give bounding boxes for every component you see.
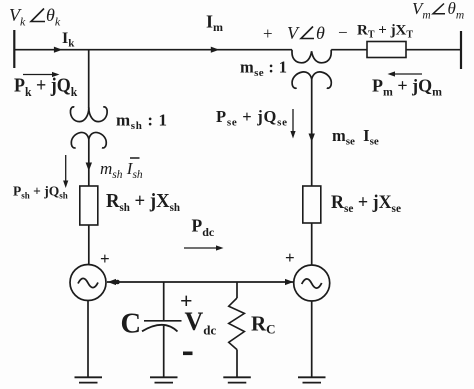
wire Rse to source E2 xyxy=(311,223,313,265)
arrow Pm (thin, left) xyxy=(391,73,422,75)
arrowhead Im xyxy=(211,47,220,53)
resistor RT box xyxy=(367,42,406,58)
svg-text:Rse + jXse: Rse + jXse xyxy=(331,192,402,215)
svg-text:msh : 1: msh : 1 xyxy=(116,111,167,133)
wire series branch down xyxy=(311,79,313,186)
transformer T2 shunt secondary winding xyxy=(71,132,89,147)
arrow Pse (thin, down) xyxy=(292,109,294,133)
ground under E1 xyxy=(75,377,103,382)
bus k xyxy=(13,30,15,68)
arrowhead series current xyxy=(309,134,315,143)
wire below E2 xyxy=(311,301,313,377)
arrowhead Pm left xyxy=(388,71,396,76)
transformer T1 series primary winding xyxy=(292,50,331,63)
label Vm angle thetam xyxy=(412,0,464,21)
arrow Pk (thin) xyxy=(23,74,54,76)
wire transformer to RT box xyxy=(331,49,367,51)
wire Rsh to source E1 xyxy=(88,225,90,265)
resistor RC top wire xyxy=(236,282,238,298)
label msh Ish italic with bar xyxy=(100,158,143,181)
svg-text:−: − xyxy=(338,23,348,42)
svg-text:Pm + jQm: Pm + jQm xyxy=(372,76,442,99)
ac source E2 sine xyxy=(302,279,322,288)
arrow Psh (thin, down) xyxy=(65,155,67,182)
ac source E1 sine xyxy=(78,278,98,287)
label + V angle theta - xyxy=(263,23,348,43)
label minus cap xyxy=(183,352,193,356)
capacitor C curved plate xyxy=(142,325,178,332)
bus m xyxy=(460,31,462,69)
svg-text:θ: θ xyxy=(316,23,325,43)
svg-text:+: + xyxy=(285,248,295,267)
label Pk + jQk xyxy=(14,75,77,99)
svg-text:+: + xyxy=(263,24,273,43)
wire shunt secondary down xyxy=(88,139,90,186)
arrowhead dc left + dot xyxy=(108,279,117,285)
resistor RC bottom wire xyxy=(236,350,238,377)
ground under C xyxy=(150,377,178,382)
arrowhead Pdc xyxy=(216,245,224,250)
ac source E2 circle xyxy=(294,265,330,301)
wire k to series transformer xyxy=(14,49,292,51)
svg-text:+: + xyxy=(100,249,110,268)
wire RT box to bus m xyxy=(406,49,461,51)
ground under RC xyxy=(223,377,251,382)
capacitor C bottom wire xyxy=(163,326,165,377)
label Vk angle thetak xyxy=(9,5,61,29)
arrow Pdc (thin, right) xyxy=(184,247,218,249)
transformer T1 series secondary winding xyxy=(292,72,312,88)
svg-text:Rsh + jXsh: Rsh + jXsh xyxy=(106,190,180,214)
resistor Rse box xyxy=(303,186,321,223)
resistor Rsh box xyxy=(80,186,98,225)
resistor RC zigzag xyxy=(229,298,245,350)
arrowhead Pk xyxy=(52,72,60,77)
wire below E1 xyxy=(87,301,89,378)
ac source E1 circle xyxy=(70,265,106,301)
svg-text:mse : 1: mse : 1 xyxy=(240,58,287,80)
capacitor C top plate xyxy=(144,320,182,322)
shunt branch wire from node xyxy=(88,50,90,108)
arrowhead Pse down xyxy=(290,131,295,139)
dc link wire xyxy=(107,281,293,283)
arrowhead shunt current xyxy=(86,163,92,172)
transformer T2 shunt primary winding xyxy=(70,107,88,122)
arrowhead Psh down xyxy=(63,181,68,189)
svg-text:RT + jXT: RT + jXT xyxy=(357,23,413,41)
arrowhead dc right xyxy=(285,279,294,285)
svg-text:C: C xyxy=(121,309,142,340)
capacitor C top wire xyxy=(163,282,165,321)
arrowhead Ik xyxy=(54,47,63,53)
ground under E2 xyxy=(298,377,326,382)
svg-text:Pk + jQk: Pk + jQk xyxy=(14,75,77,99)
